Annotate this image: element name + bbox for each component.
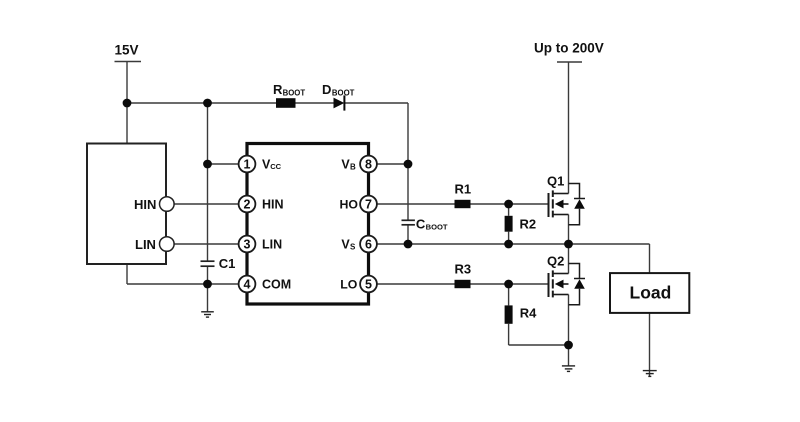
transistor Q1 (549, 190, 569, 217)
node Cboot-VS (404, 240, 413, 249)
svg-text:5: 5 (365, 278, 372, 292)
wire Q1 source to VS (568, 215, 570, 245)
svg-text:LIN: LIN (262, 238, 282, 252)
supply 200V terminal bar (557, 61, 582, 63)
svg-text:1: 1 (244, 158, 251, 172)
wire R4 bottom (508, 324, 510, 345)
ground (load) (643, 371, 657, 377)
node COM tee (203, 280, 212, 289)
resistor R4 (505, 305, 513, 323)
capacitor CBOOT (402, 219, 415, 221)
wire VS row (377, 243, 650, 245)
svg-text:15V: 15V (115, 43, 139, 58)
resistor R1 (455, 200, 471, 208)
wire VS to load (649, 244, 651, 273)
pin 2 (239, 196, 256, 213)
node R1-R2 (504, 200, 513, 209)
terminal HIN (160, 197, 175, 212)
svg-text:Q2: Q2 (547, 254, 564, 269)
diode Q2 body (569, 264, 586, 305)
node VS-Q (564, 240, 573, 249)
wire node to pin1 (208, 163, 240, 165)
svg-text:BOOT: BOOT (332, 88, 355, 97)
wire Q1 drain up to 200V (568, 62, 570, 194)
svg-text:Q1: Q1 (547, 174, 564, 189)
svg-text:BOOT: BOOT (426, 223, 448, 232)
wire pin7 to R1 (377, 203, 455, 205)
svg-text:HIN: HIN (262, 198, 284, 212)
svg-text:CC: CC (270, 162, 281, 171)
wire rail2 down to C1 (207, 103, 209, 261)
ground (COM) (201, 312, 214, 317)
pin 5 (360, 276, 377, 293)
wire Q2 drain to VS (568, 244, 570, 274)
capacitor C1 (201, 260, 215, 262)
wire COM row (127, 283, 239, 285)
svg-text:Up to 200V: Up to 200V (534, 41, 604, 56)
wire pin8 to VB node (377, 163, 408, 165)
svg-text:7: 7 (365, 198, 372, 212)
wire corner down to VB node (407, 103, 409, 164)
pin 8 (360, 156, 377, 173)
resistor R3 (455, 280, 471, 288)
node VB (404, 160, 413, 169)
transistor Q2 (549, 270, 569, 297)
svg-text:BOOT: BOOT (283, 88, 306, 97)
svg-text:S: S (350, 242, 356, 251)
svg-text:3: 3 (244, 238, 251, 252)
svg-text:R4: R4 (520, 306, 537, 321)
svg-text:2: 2 (244, 198, 251, 212)
op IC body (247, 144, 369, 305)
wire load bottom (649, 313, 651, 377)
wire pin5 to R3 (377, 283, 455, 285)
wire LIN to pin3 (174, 243, 239, 245)
wire HIN to pin2 (174, 203, 239, 205)
node R3-R4 (504, 280, 513, 289)
load box (610, 273, 689, 313)
node VCC tee (203, 160, 212, 169)
wire R3 to Q2 gate (471, 283, 548, 285)
svg-text:C1: C1 (219, 256, 236, 271)
wire Cboot to VS (407, 225, 409, 244)
svg-text:B: B (350, 162, 356, 171)
node R2-VS (504, 240, 513, 249)
wire R1 to Q1 gate (471, 203, 548, 205)
wire Q2 source ground stem (568, 345, 570, 366)
diode Q1 body (569, 184, 586, 225)
wire R2 top (508, 204, 510, 216)
ground (Q2 source) (562, 366, 575, 372)
wire R2 bottom (508, 232, 510, 244)
svg-text:C: C (416, 216, 426, 231)
wire COM ground stem (207, 284, 209, 312)
terminal LIN (160, 237, 175, 252)
wire 15V vertical (126, 62, 128, 104)
pin 1 (239, 156, 256, 173)
node 15V rail A (123, 99, 132, 108)
input source box (87, 144, 166, 265)
wire R4 to Q2 source node (509, 344, 569, 346)
wire top rail (127, 102, 276, 104)
wire VB node to Cboot (407, 164, 409, 220)
svg-text:D: D (322, 82, 331, 97)
svg-text:LIN: LIN (135, 237, 156, 252)
wire rboot to dboot (296, 102, 334, 104)
pin 4 (239, 276, 256, 293)
svg-text:R3: R3 (455, 262, 472, 277)
svg-text:4: 4 (244, 278, 251, 292)
node Q2 source (564, 341, 573, 350)
resistor R2 (505, 216, 513, 232)
svg-text:R: R (273, 82, 283, 97)
pin 6 (360, 236, 377, 253)
wire R4 top (508, 284, 510, 305)
diode DBOOT (334, 98, 345, 109)
svg-text:HO: HO (340, 198, 359, 212)
svg-text:HIN: HIN (134, 197, 156, 212)
svg-text:COM: COM (262, 278, 291, 292)
wire box bottom stub (126, 264, 128, 284)
svg-text:6: 6 (365, 238, 372, 252)
wire Q2 source down (568, 295, 570, 346)
resistor RBOOT (276, 98, 296, 108)
supply 15V terminal bar (115, 61, 142, 63)
svg-text:8: 8 (365, 158, 372, 172)
pin 7 (360, 196, 377, 213)
svg-text:LO: LO (340, 278, 358, 292)
wire box top (126, 103, 128, 144)
svg-text:Load: Load (630, 283, 672, 303)
wire dboot to corner (345, 102, 409, 104)
pin 3 (239, 236, 256, 253)
node 15V rail B (203, 99, 212, 108)
svg-text:R2: R2 (520, 217, 537, 232)
svg-text:R1: R1 (455, 182, 472, 197)
wire C1 to COM node (207, 266, 209, 284)
